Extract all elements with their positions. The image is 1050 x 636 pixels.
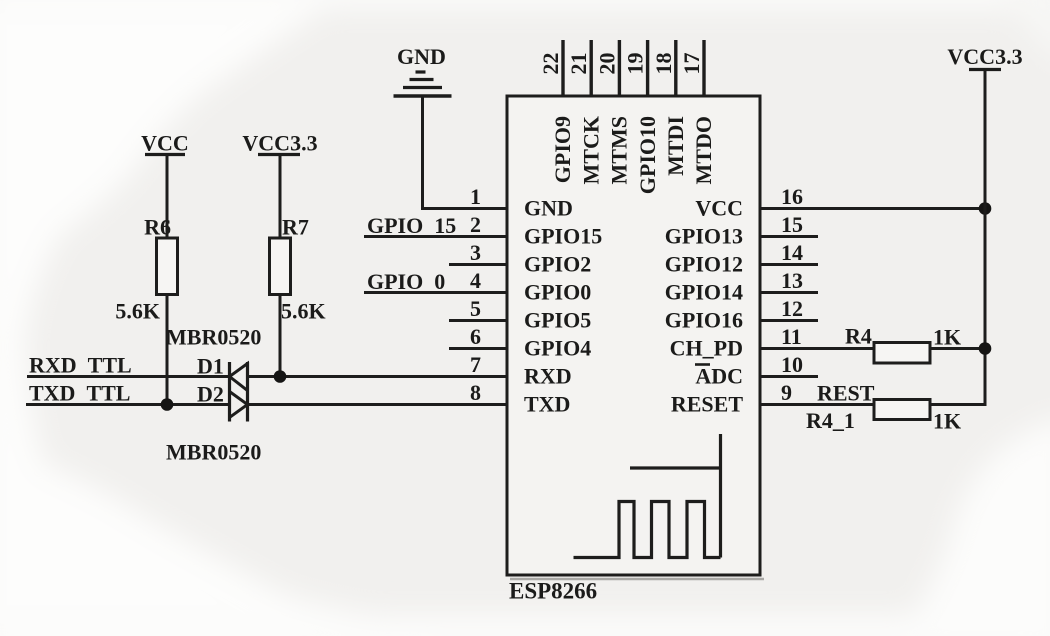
svg-text:22: 22 bbox=[538, 53, 563, 75]
svg-text:ADC: ADC bbox=[695, 364, 743, 389]
pin number 22 bbox=[538, 53, 563, 75]
svg-text:R4_1: R4_1 bbox=[806, 408, 855, 433]
wire top pin 21 bbox=[590, 40, 593, 96]
wire top pin 19 bbox=[646, 40, 649, 96]
svg-text:GPIO9: GPIO9 bbox=[550, 116, 575, 183]
svg-text:D2: D2 bbox=[197, 382, 224, 407]
svg-text:5.6K: 5.6K bbox=[115, 299, 160, 324]
wire VCC3.3 to R7 bbox=[279, 155, 282, 239]
wire TXD TTL net left segment to diode D2 bbox=[26, 403, 230, 406]
node junction R7/RXD bbox=[274, 370, 287, 383]
svg-text:GPIO 0: GPIO 0 bbox=[367, 269, 445, 294]
wire pin 11 to R4 bbox=[760, 347, 874, 350]
pin number 6 bbox=[470, 324, 481, 349]
pin name GPIO14 bbox=[665, 280, 743, 305]
op-amp U1 : ESP8266 module body bbox=[507, 96, 764, 579]
svg-text:D1: D1 bbox=[197, 354, 224, 379]
svg-text:1K: 1K bbox=[933, 409, 961, 434]
pin name MTCK bbox=[578, 116, 603, 184]
svg-text:17: 17 bbox=[679, 53, 704, 75]
pin number 15 bbox=[781, 212, 803, 237]
node MBR0520 label bottom bbox=[166, 440, 261, 465]
pin name GPIO13 bbox=[665, 224, 743, 249]
pin number 19 bbox=[623, 53, 648, 75]
svg-text:MTDO: MTDO bbox=[691, 116, 716, 184]
wire R7 to RXD net bbox=[279, 295, 282, 377]
node R4 label bbox=[845, 324, 872, 349]
wire VCC to R6 bbox=[166, 155, 169, 239]
svg-text:RXD TTL: RXD TTL bbox=[29, 353, 132, 378]
svg-text:GPIO0: GPIO0 bbox=[524, 280, 591, 305]
node RXD TTL label bbox=[29, 353, 132, 378]
svg-text:VCC3.3: VCC3.3 bbox=[242, 131, 317, 156]
wire R4 to rail bbox=[930, 347, 985, 350]
resistor R6 bbox=[157, 238, 178, 295]
pin name GPIO4 bbox=[524, 336, 591, 361]
wire pin 6 stub bbox=[449, 347, 507, 350]
resistor R7 bbox=[270, 238, 291, 295]
wire R6 to TXD net bbox=[166, 295, 169, 405]
pin number 13 bbox=[781, 268, 803, 293]
svg-text:TXD: TXD bbox=[524, 392, 570, 417]
svg-text:VCC3.3: VCC3.3 bbox=[947, 44, 1022, 69]
pin number 3 bbox=[470, 240, 481, 265]
svg-text:R7: R7 bbox=[282, 215, 309, 240]
svg-text:18: 18 bbox=[651, 53, 676, 75]
power VCC3.3 right bbox=[947, 44, 1022, 70]
svg-text:GPIO5: GPIO5 bbox=[524, 308, 591, 333]
pin number 7 bbox=[470, 352, 481, 377]
wire GND net to pin 1 bbox=[421, 96, 507, 209]
svg-text:14: 14 bbox=[781, 240, 803, 265]
svg-text:GPIO14: GPIO14 bbox=[665, 280, 743, 305]
pin name GND bbox=[524, 196, 573, 221]
svg-text:8: 8 bbox=[470, 380, 481, 405]
svg-text:2: 2 bbox=[470, 212, 481, 237]
svg-text:GPIO 15: GPIO 15 bbox=[367, 213, 456, 238]
wire pin 15 stub bbox=[760, 235, 818, 238]
svg-text:ESP8266: ESP8266 bbox=[509, 579, 597, 604]
pin name VCC bbox=[695, 196, 743, 221]
diode D1 bbox=[197, 354, 248, 422]
svg-text:GPIO4: GPIO4 bbox=[524, 336, 591, 361]
node R6 label bbox=[144, 215, 171, 240]
pin number 5 bbox=[470, 296, 481, 321]
svg-text:12: 12 bbox=[781, 296, 803, 321]
svg-text:MTCK: MTCK bbox=[578, 116, 603, 184]
pin number 4 bbox=[470, 268, 481, 293]
node ADC overline bbox=[695, 363, 710, 366]
svg-text:4: 4 bbox=[470, 268, 481, 293]
svg-text:CH_PD: CH_PD bbox=[670, 336, 743, 361]
wire top pin 22 bbox=[561, 40, 564, 96]
ground bbox=[394, 44, 452, 96]
pin name GPIO5 bbox=[524, 308, 591, 333]
wire top pin 20 bbox=[618, 40, 621, 96]
svg-text:3: 3 bbox=[470, 240, 481, 265]
pin name TXD bbox=[524, 392, 570, 417]
node R7 label bbox=[282, 215, 309, 240]
node MBR0520 label top bbox=[166, 325, 261, 350]
svg-text:MBR0520: MBR0520 bbox=[166, 325, 261, 350]
node junction R6/TXD bbox=[161, 398, 174, 411]
svg-text:GPIO13: GPIO13 bbox=[665, 224, 743, 249]
wire top pin 18 bbox=[674, 40, 677, 96]
svg-text:GPIO16: GPIO16 bbox=[665, 308, 743, 333]
wire GPIO 0 net to pin 4 bbox=[364, 291, 507, 294]
power VCC3.3 left bbox=[242, 131, 317, 156]
svg-text:TXD TTL: TXD TTL bbox=[29, 381, 130, 406]
pin name ADC bbox=[695, 364, 743, 389]
pin number 9 bbox=[781, 380, 792, 405]
node 5.6K label R6 bbox=[115, 299, 160, 324]
wire pin 12 stub bbox=[760, 319, 818, 322]
pin number 17 bbox=[679, 53, 704, 75]
svg-text:1K: 1K bbox=[933, 325, 961, 350]
pin number 10 bbox=[781, 352, 803, 377]
wire pin 14 stub bbox=[760, 263, 818, 266]
node GPIO 15 label bbox=[367, 213, 456, 238]
svg-text:RXD: RXD bbox=[524, 364, 572, 389]
pin name MTDI bbox=[663, 116, 688, 176]
pin name GPIO12 bbox=[665, 252, 743, 277]
pin number 1 bbox=[470, 184, 481, 209]
node REST label bbox=[817, 381, 875, 406]
pin name GPIO0 bbox=[524, 280, 591, 305]
pin number 18 bbox=[651, 53, 676, 75]
pin name RXD bbox=[524, 364, 572, 389]
wire R4_1 to rail bbox=[930, 403, 987, 406]
wire TXD net diode to pin 8 bbox=[248, 403, 508, 406]
pin number 14 bbox=[781, 240, 803, 265]
svg-text:GND: GND bbox=[524, 196, 573, 221]
svg-text:REST: REST bbox=[817, 381, 875, 406]
node junction pin16/rail bbox=[979, 202, 992, 215]
svg-text:11: 11 bbox=[781, 324, 802, 349]
svg-text:16: 16 bbox=[781, 184, 803, 209]
wire pin 9 to R4_1 bbox=[760, 403, 874, 406]
node GPIO 0 label bbox=[367, 269, 445, 294]
svg-text:R4: R4 bbox=[845, 324, 872, 349]
pin number 12 bbox=[781, 296, 803, 321]
resistor R4 bbox=[874, 343, 930, 364]
node ESP8266 label bbox=[509, 579, 597, 604]
pin name GPIO16 bbox=[665, 308, 743, 333]
wire VCC pin 16 to rail bbox=[760, 207, 985, 210]
svg-text:MTMS: MTMS bbox=[607, 116, 632, 184]
node 5.6K label R7 bbox=[281, 299, 326, 324]
pin number 16 bbox=[781, 184, 803, 209]
node 1K label R4_1 bbox=[933, 409, 961, 434]
svg-text:MBR0520: MBR0520 bbox=[166, 440, 261, 465]
pin number 2 bbox=[470, 212, 481, 237]
svg-text:VCC: VCC bbox=[141, 131, 189, 156]
pin name MTDO bbox=[691, 116, 716, 184]
diode D2 bbox=[197, 362, 248, 422]
wire pin 13 stub bbox=[760, 291, 818, 294]
wire RXD net diode to pin 7 bbox=[248, 375, 508, 378]
wire RXD TTL net left segment to diode D1 bbox=[27, 375, 230, 378]
svg-text:6: 6 bbox=[470, 324, 481, 349]
svg-text:15: 15 bbox=[781, 212, 803, 237]
resistor R4_1 bbox=[874, 400, 930, 420]
svg-text:RESET: RESET bbox=[671, 392, 743, 417]
pin name GPIO9 bbox=[550, 116, 575, 183]
wire VCC3.3 rail vertical bbox=[984, 70, 987, 405]
svg-text:13: 13 bbox=[781, 268, 803, 293]
pin name GPIO2 bbox=[524, 252, 591, 277]
pin number 21 bbox=[566, 53, 591, 75]
svg-text:R6: R6 bbox=[144, 215, 171, 240]
svg-text:5: 5 bbox=[470, 296, 481, 321]
svg-text:GPIO15: GPIO15 bbox=[524, 224, 602, 249]
node 1K label R4 bbox=[933, 325, 961, 350]
node junction R4/rail bbox=[979, 342, 992, 355]
pin name MTMS bbox=[607, 116, 632, 184]
svg-text:GPIO2: GPIO2 bbox=[524, 252, 591, 277]
pin number 20 bbox=[594, 53, 619, 75]
antenna symbol inside ESP8266 bbox=[574, 434, 721, 558]
svg-text:VCC: VCC bbox=[695, 196, 743, 221]
svg-text:GPIO12: GPIO12 bbox=[665, 252, 743, 277]
pin name GPIO15 bbox=[524, 224, 602, 249]
node TXD TTL label bbox=[29, 381, 130, 406]
svg-text:GND: GND bbox=[397, 44, 446, 69]
wire pin 3 stub bbox=[449, 263, 507, 266]
pin name CH_PD bbox=[670, 336, 743, 361]
wire top pin 17 bbox=[702, 40, 705, 96]
svg-text:GPIO10: GPIO10 bbox=[635, 116, 660, 194]
wire pin 5 stub bbox=[449, 319, 507, 322]
pin number 8 bbox=[470, 380, 481, 405]
svg-text:9: 9 bbox=[781, 380, 792, 405]
wire GPIO 15 net to pin 2 bbox=[364, 235, 507, 238]
pin number 11 bbox=[781, 324, 802, 349]
svg-text:7: 7 bbox=[470, 352, 481, 377]
svg-text:20: 20 bbox=[594, 53, 619, 75]
pin name GPIO10 bbox=[635, 116, 660, 194]
svg-text:1: 1 bbox=[470, 184, 481, 209]
svg-text:21: 21 bbox=[566, 53, 591, 75]
pin name RESET bbox=[671, 392, 743, 417]
wire pin 10 stub bbox=[760, 375, 818, 378]
power VCC bbox=[141, 131, 189, 156]
svg-text:19: 19 bbox=[623, 53, 648, 75]
node R4_1 label bbox=[806, 408, 855, 433]
svg-text:10: 10 bbox=[781, 352, 803, 377]
svg-text:5.6K: 5.6K bbox=[281, 299, 326, 324]
svg-text:MTDI: MTDI bbox=[663, 116, 688, 176]
